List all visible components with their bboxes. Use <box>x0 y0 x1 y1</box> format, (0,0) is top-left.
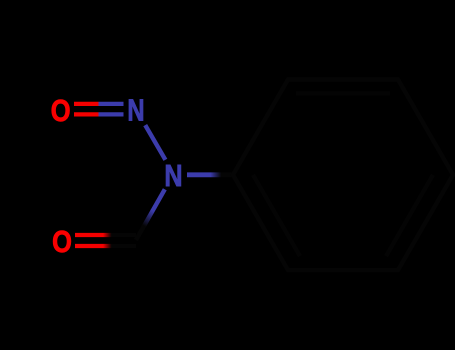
svg-text:N: N <box>127 93 144 127</box>
svg-text:O: O <box>51 94 71 128</box>
svg-text:O: O <box>52 225 72 259</box>
svg-text:N: N <box>164 159 182 193</box>
